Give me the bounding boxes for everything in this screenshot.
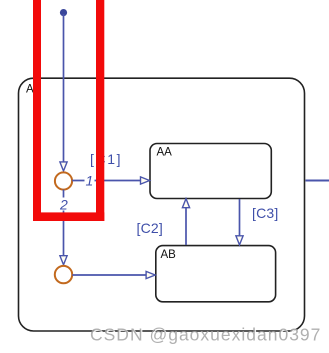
svg-text:[C3]: [C3] <box>252 205 278 221</box>
state AB <box>156 246 276 302</box>
junction J1 <box>55 172 72 189</box>
transition branch 2 wire down <box>63 190 65 262</box>
default transition arrowhead <box>60 162 67 171</box>
svg-text:CSDN @gaoxuexidan0397: CSDN @gaoxuexidan0397 <box>90 325 321 345</box>
branch number 1 label <box>85 174 95 187</box>
red annotation rectangle bottom bar <box>33 212 104 221</box>
default transition dot <box>60 9 67 16</box>
svg-text:AA: AA <box>157 147 173 159</box>
transition wire J2 to AB <box>72 274 150 276</box>
exit transition wire on right <box>306 180 329 182</box>
svg-text:A: A <box>26 84 34 96</box>
svg-text:1: 1 <box>86 173 94 189</box>
transition C2 arrowhead <box>182 199 189 208</box>
state A <box>19 78 305 331</box>
transition branch 2 arrowhead <box>60 256 67 265</box>
svg-text:2: 2 <box>59 197 68 213</box>
transition branch 1 arrowhead <box>141 177 150 184</box>
transition C2 wire AB to AA <box>185 203 187 246</box>
branch number 2 label <box>59 198 70 211</box>
red annotation rectangle left bar <box>33 0 41 221</box>
svg-text:[C1]: [C1] <box>90 151 122 167</box>
svg-text:[C2]: [C2] <box>137 220 163 236</box>
transition C3 wire AA to AB <box>239 199 241 238</box>
red annotation rectangle right bar <box>96 0 104 221</box>
transition J2 to AB arrowhead <box>146 271 155 278</box>
junction J2 <box>55 266 72 283</box>
default transition wire <box>63 14 65 162</box>
svg-text:AB: AB <box>161 249 177 261</box>
state AA <box>150 144 271 199</box>
transition C3 arrowhead <box>236 236 243 245</box>
transition branch 1 wire to AA <box>72 180 145 182</box>
